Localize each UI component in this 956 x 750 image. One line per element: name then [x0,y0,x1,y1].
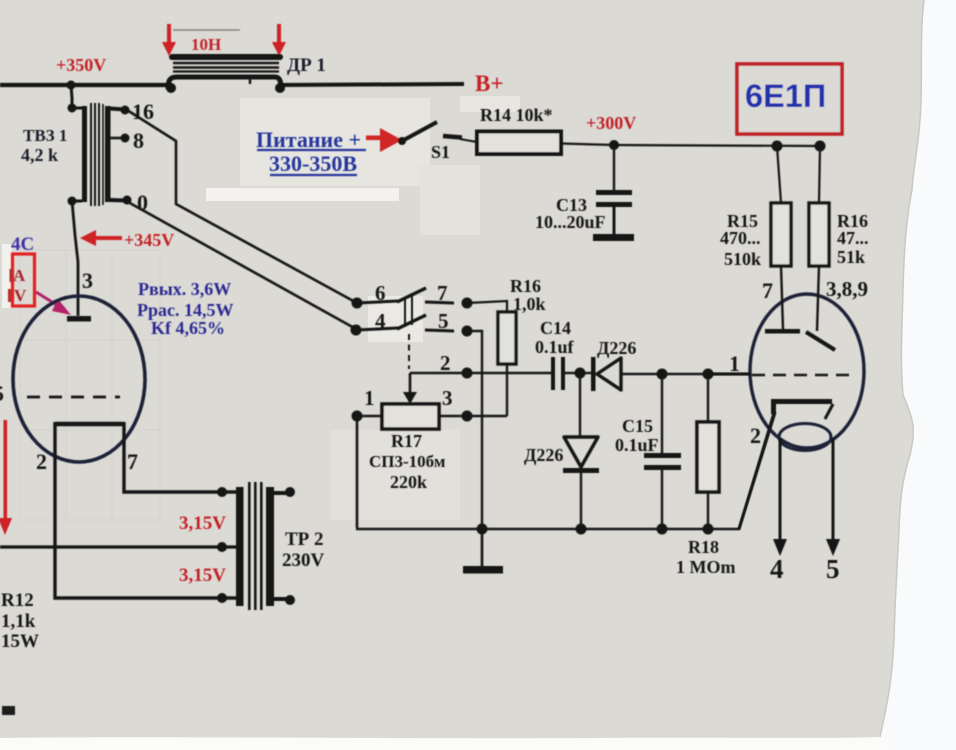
target electrode bar [765,329,800,334]
svg-text:R16: R16 [510,276,541,296]
wire node2 row [410,372,552,374]
svg-text:3: 3 [82,268,93,293]
tube 6P14 envelope [13,296,145,462]
wire B+ rail left segment [0,83,172,87]
svg-text:+345V: +345V [124,230,174,250]
node R15 top [772,141,783,152]
wire to R15 [777,146,781,203]
svg-text:R12: R12 [1,590,34,611]
node contact 6 [352,298,363,309]
svg-text:Д226: Д226 [524,445,563,465]
potentiometer R17 body [382,404,439,429]
wire tap0 to contact 4 [128,202,356,329]
torn paper edge right [876,0,956,750]
wire R16 to deflector [817,266,819,331]
stray mark bottom left [2,706,15,715]
svg-text:5: 5 [0,381,4,406]
svg-text:C14: C14 [540,318,571,338]
cathode bar [55,422,124,426]
svg-text:5: 5 [826,554,840,584]
switch pole 6-7 lever [357,301,398,303]
svg-text:7: 7 [437,281,448,305]
tube base ellipse [779,424,831,451]
wire +300V to tube top [614,145,820,146]
inductor DR1 body [168,57,281,89]
svg-text:Рвых. 3,6W: Рвых. 3,6W [138,279,231,299]
capacitor C13 [593,190,634,241]
svg-text:220k: 220k [390,472,427,492]
node on wire 2 [462,368,473,379]
node tap 8 [121,134,130,143]
svg-text:S1: S1 [431,142,450,162]
node tap 16 [121,106,130,115]
wire TVZ1 bottom to tube anode [72,201,78,316]
svg-text:0.1uf: 0.1uf [535,337,575,357]
wire anode tab to rail (pin 2) [739,412,774,529]
node C15 bottom on rail [657,524,668,535]
svg-text:C15: C15 [622,416,653,436]
label +345V with left red arrow [80,230,122,246]
magenta arrow from meter to anode [36,292,60,307]
deflector slanted bar [806,332,835,350]
wire R15 to target electrode [781,266,783,329]
svg-text:1: 1 [729,351,740,376]
svg-text:+350V: +350V [56,55,106,75]
svg-text:1,0k: 1,0k [513,294,546,314]
svg-text:47...: 47... [837,228,869,248]
svg-text:4С: 4С [11,234,34,255]
svg-text:Питание +: Питание + [256,127,361,152]
resistor R18 [707,374,709,422]
svg-text:3,15V: 3,15V [179,565,226,586]
heater pin 4 arrow [779,438,782,541]
svg-text:Ррас. 14,5W: Ррас. 14,5W [137,300,234,320]
svg-text:Kf 4,65%: Kf 4,65% [151,318,225,338]
node diode bottom on rail [576,524,587,535]
svg-text:1,1k: 1,1k [1,611,36,632]
switch mechanical dashed link [408,334,410,369]
node TVZ1 top left [68,104,77,113]
wire pin7 leg [124,422,238,492]
svg-text:3,15V: 3,15V [179,513,226,534]
svg-text:ДР 1: ДР 1 [287,55,326,76]
node TR2 right bottom [285,595,295,605]
svg-text:ТВЗ 1: ТВЗ 1 [23,126,67,145]
svg-text:B+: B+ [475,71,503,96]
capacitor C14 [551,357,555,390]
node contact 5 [462,326,473,337]
switch S1 [398,137,406,145]
svg-text:330-350В: 330-350В [269,151,357,176]
svg-text:510k: 510k [724,249,761,269]
wire B+ rail right segment [279,84,464,85]
svg-text:230V: 230V [282,550,325,571]
svg-text:5: 5 [438,309,449,333]
transformer TR2 [236,482,286,610]
node TR2 top tap [217,487,227,497]
torn paper edge bottom [0,737,890,750]
resistor R15 [771,203,791,266]
wire contact 7 to R16 [467,301,507,312]
svg-text:10...20uF: 10...20uF [535,212,606,232]
ground [481,529,484,567]
potentiometer wiper arrow [409,373,412,394]
switch coupling bars [404,297,406,327]
svg-text:Д226: Д226 [597,338,636,358]
wire R14 to +300V node [561,144,614,146]
svg-text:0.1uF: 0.1uF [615,435,659,455]
node on rail above TVZ1 [67,81,76,90]
wire bottom rail [356,413,775,529]
wire TR2 center tap to left [0,545,238,548]
node DR1 right terminal [275,83,285,93]
wire pot terminal1 [357,415,382,418]
meter red box (cut at left) [13,254,35,306]
node R16 top [815,141,826,152]
svg-text:R14 10k*: R14 10k* [480,105,553,125]
grid dashed line [27,396,120,399]
wire +300V node down to C13 [613,145,615,191]
node TR2 bottom tap [217,593,227,603]
diode D226 vertical [579,373,581,437]
switch contact 7 [425,302,454,303]
wire R16 bottom to pot terminal 3 [506,364,508,416]
svg-text:+300V: +300V [586,113,636,133]
svg-text:1 MOm: 1 MOm [676,557,735,577]
diode D226 horizontal [591,357,596,391]
svg-text:2: 2 [36,449,47,474]
wire diode to pin1 [621,373,750,375]
wire pin2 leg [55,422,238,598]
svg-text:51k: 51k [837,247,865,267]
inductor DR1 core line [173,29,240,31]
wire tap16 to contact 6 [127,110,357,303]
svg-text:V: V [14,286,27,305]
node TR2 right top [285,487,295,497]
wire pot terminal3 [439,415,507,418]
node +300V [609,140,619,150]
svg-text:2: 2 [750,423,761,448]
wire to R16 [819,146,820,203]
node contact 7 [462,298,473,309]
svg-text:3,8,9: 3,8,9 [826,277,868,301]
svg-text:СП3-10бм: СП3-10бм [369,452,446,471]
anode bar [67,316,91,322]
svg-text:10Н: 10Н [191,35,221,54]
node pot terminal 3 [462,411,473,422]
svg-text:4,2 k: 4,2 k [21,145,58,165]
svg-text:1: 1 [364,386,375,410]
node TR2 center tap [217,542,227,552]
capacitor C15 [661,374,663,454]
node R18 bottom on rail [703,524,714,535]
svg-text:470...: 470... [720,228,761,248]
svg-text:R17: R17 [391,431,422,451]
svg-text:А: А [13,266,26,285]
node C15 top [657,369,668,380]
node ground on rail [477,524,488,535]
heater pin 5 arrow [832,438,835,541]
red arrow right at DR1 [272,24,286,56]
node tap 0 [123,196,132,205]
node after C14 [575,368,586,379]
red arrow down at left [4,420,8,522]
svg-text:ТР 2: ТР 2 [285,529,324,550]
svg-text:R18: R18 [688,537,719,557]
resistor R14 [477,132,561,155]
node pot terminal 1 [352,411,363,422]
resistor R16 1,0k [498,312,516,364]
svg-text:2: 2 [440,351,451,375]
red arrow to switch [366,128,402,152]
svg-text:8: 8 [133,128,144,153]
label 0V partial [8,289,11,302]
triode anode bar [771,399,832,404]
node DR1 left terminal [166,83,176,93]
node TVZ1 bottom left [68,197,77,206]
svg-text:3: 3 [442,386,453,410]
wire contact 5 to ground rail [467,331,482,529]
node contact 4 [351,325,362,336]
svg-text:15W: 15W [1,631,39,652]
triode anode right tick [825,404,833,419]
label 6E1P box [737,64,842,134]
switch contact 5 [425,330,454,331]
node R18 top [703,369,714,380]
label mA partial [10,269,13,282]
svg-text:4: 4 [770,554,784,584]
tube 6E1P envelope [750,294,864,448]
red arrow left at DR1 [162,24,176,56]
wire C14 to node [565,372,580,374]
grid dashed line pin 1 [752,374,851,377]
wire stub rail to TVZ1 [71,85,72,108]
wire pin1 from R18 node [708,373,751,375]
resistor R16 right [809,203,829,266]
svg-text:6Е1П: 6Е1П [745,78,826,114]
svg-text:7: 7 [762,278,773,303]
switch pole 4-5 lever [356,328,398,330]
svg-text:7: 7 [127,449,138,474]
wire pot terminal1 down to rail [356,416,359,528]
transformer TVZ1 [72,103,127,206]
